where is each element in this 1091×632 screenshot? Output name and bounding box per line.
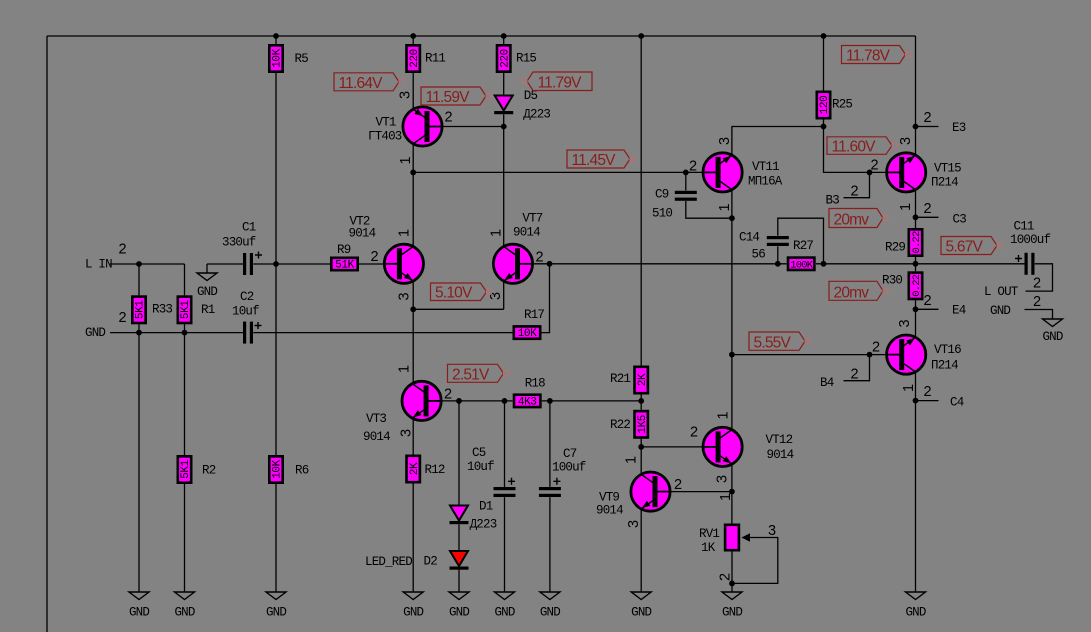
svg-text:ГТ403: ГТ403	[368, 130, 402, 144]
wire VT9 emitter to ground	[640, 509, 642, 592]
ground	[197, 273, 217, 299]
wire C9 top	[685, 172, 687, 190]
svg-text:GND: GND	[403, 606, 423, 620]
svg-text:3: 3	[897, 320, 913, 328]
svg-text:1: 1	[397, 365, 413, 373]
wire D5 to VT7 collector	[503, 114, 505, 246]
resistor R11 220	[407, 45, 446, 71]
resistor R18 4K3	[514, 377, 545, 409]
svg-text:П214: П214	[931, 176, 958, 190]
svg-text:330uf: 330uf	[222, 236, 256, 250]
svg-text:4K3: 4K3	[518, 397, 537, 409]
wire output GND stub	[1025, 310, 1053, 320]
wire	[275, 73, 277, 455]
svg-text:C4: C4	[950, 396, 964, 410]
transistor VT7 9014	[493, 244, 532, 283]
svg-text:R15: R15	[516, 52, 536, 66]
svg-text:2: 2	[1033, 294, 1041, 310]
wire VT2 collector	[412, 172, 414, 246]
wire C14 top return	[778, 218, 824, 264]
wire	[275, 484, 277, 592]
transistor VT11 МП16А	[703, 153, 742, 192]
svg-text:1: 1	[489, 229, 505, 237]
junction GND rail / R1-R2	[182, 330, 188, 336]
svg-text:1: 1	[716, 412, 732, 420]
wire	[915, 257, 917, 271]
wire output rail left	[550, 263, 787, 265]
svg-text:2: 2	[924, 110, 932, 126]
svg-text:1: 1	[718, 493, 734, 501]
svg-text:0.22: 0.22	[911, 274, 923, 297]
wire C14 bottom	[777, 246, 779, 263]
wire to VT3 collector	[412, 309, 414, 383]
wire C9 bottom to VT11 emitter	[686, 201, 732, 218]
svg-text:RV1: RV1	[699, 527, 719, 541]
voltage label 5.10V	[431, 283, 492, 302]
svg-text:11.79V: 11.79V	[538, 75, 583, 92]
wire rail to R21	[640, 36, 642, 366]
svg-text:2: 2	[924, 201, 932, 217]
svg-text:C11: C11	[1014, 220, 1034, 234]
ground	[494, 592, 514, 620]
resistor R5 10K	[269, 45, 308, 71]
svg-text:Д223: Д223	[523, 108, 550, 122]
wire GND rail to R17	[253, 332, 512, 334]
wire VT7 base	[533, 263, 550, 265]
wire VT11 collector to R25	[732, 127, 824, 156]
svg-text:2: 2	[689, 159, 697, 175]
wire VT7 emitter	[503, 281, 505, 309]
svg-text:GND: GND	[1042, 330, 1062, 344]
wire output rail right	[816, 263, 1025, 265]
resistor R27 100K	[788, 239, 814, 271]
svg-text:2: 2	[851, 184, 859, 200]
wire 5.55V node to VT16 base	[732, 354, 887, 356]
svg-text:GND: GND	[174, 606, 194, 620]
svg-text:R2: R2	[202, 464, 216, 478]
svg-text:9014: 9014	[596, 503, 623, 517]
junction VT9 base / VT12 emitter / RV1	[729, 489, 735, 495]
voltage label 2.51V	[448, 364, 509, 383]
transistor VT12 9014	[703, 427, 742, 466]
svg-text:2: 2	[445, 110, 453, 126]
voltage label 11.78V	[842, 46, 911, 65]
svg-text:R1: R1	[201, 303, 215, 317]
svg-text:C14: C14	[739, 231, 759, 245]
svg-text:VT11: VT11	[752, 160, 779, 174]
svg-text:9014: 9014	[349, 227, 376, 241]
svg-text:11.64V: 11.64V	[339, 75, 384, 92]
svg-text:E3: E3	[952, 121, 966, 135]
wire GND input rail	[110, 332, 243, 334]
svg-text:1: 1	[624, 456, 640, 464]
svg-text:GND: GND	[494, 606, 514, 620]
svg-text:C1: C1	[242, 221, 256, 235]
junction VT1 emitter / VT2 collector	[410, 170, 416, 176]
wire RV1 to ground	[731, 552, 733, 593]
wire VT15 emitter	[915, 190, 917, 228]
capacitor C5 10uf	[467, 446, 516, 497]
svg-text:2: 2	[444, 387, 452, 403]
wire C7 to ground	[549, 497, 551, 592]
svg-text:GND: GND	[540, 606, 560, 620]
capacitor C14 56	[739, 231, 789, 262]
svg-text:5.10V: 5.10V	[435, 285, 473, 302]
resistor R15 220	[497, 45, 536, 71]
svg-text:R18: R18	[525, 377, 545, 391]
svg-text:R25: R25	[832, 98, 852, 112]
wire	[823, 120, 825, 127]
junction L IN / R33	[136, 261, 142, 267]
svg-text:10K: 10K	[272, 48, 284, 67]
wire R12 to ground	[412, 484, 414, 593]
diode D5 Д223	[494, 96, 513, 115]
wire driver node to VT11 base	[413, 171, 703, 173]
ground	[266, 592, 286, 620]
svg-text:GND: GND	[905, 606, 925, 620]
svg-text:1: 1	[898, 203, 914, 211]
junction D5 / VT1 base / VT7 collector	[501, 124, 507, 130]
svg-text:2: 2	[718, 573, 734, 581]
wire	[184, 324, 186, 455]
svg-text:2: 2	[871, 158, 879, 174]
junction E4	[913, 306, 919, 312]
svg-text:R27: R27	[793, 239, 813, 253]
svg-text:1K: 1K	[701, 541, 716, 555]
svg-text:10K: 10K	[518, 328, 537, 340]
svg-text:2: 2	[1033, 276, 1041, 292]
svg-text:3: 3	[397, 293, 413, 301]
svg-text:1: 1	[397, 229, 413, 237]
diode D2 LED_RED	[450, 551, 469, 570]
resistor R2 5K1	[178, 456, 216, 482]
svg-text:1000uf: 1000uf	[1010, 233, 1051, 247]
svg-text:VT12: VT12	[766, 433, 793, 447]
junction top rail / R21 column	[638, 33, 644, 39]
wire L IN	[110, 263, 185, 265]
resistor R25 120	[817, 92, 853, 118]
svg-text:11.78V: 11.78V	[846, 48, 891, 65]
svg-text:D1: D1	[479, 500, 493, 514]
svg-text:R17: R17	[524, 308, 544, 322]
svg-text:C2: C2	[240, 290, 254, 304]
svg-text:L OUT: L OUT	[984, 285, 1019, 299]
resistor R33 5K1	[132, 297, 172, 323]
svg-text:2: 2	[371, 249, 379, 265]
junction C5	[502, 398, 508, 404]
voltage label 11.64V	[334, 73, 404, 92]
wire V+ top rail	[47, 35, 916, 37]
svg-text:GND: GND	[197, 285, 217, 299]
wire C5 to ground	[504, 497, 506, 592]
wire VT3 base	[441, 400, 459, 402]
wire B3 stub	[844, 172, 870, 197]
svg-text:2: 2	[872, 340, 880, 356]
svg-text:100K: 100K	[790, 259, 814, 271]
resistor R29 0.22	[885, 229, 923, 255]
svg-text:100uf: 100uf	[552, 461, 586, 475]
transistor VT3 9014	[402, 381, 441, 420]
svg-text:0.22: 0.22	[911, 231, 923, 254]
transistor VT15 П214	[887, 153, 926, 192]
svg-text:3: 3	[898, 137, 914, 145]
wire to C5	[504, 401, 506, 487]
svg-text:10uf: 10uf	[232, 305, 259, 319]
wire VT1 emitter	[412, 144, 414, 173]
junction R22 / VT12 base / VT9 collector	[638, 444, 644, 450]
svg-text:5K1: 5K1	[180, 300, 192, 319]
svg-text:9014: 9014	[363, 430, 390, 444]
svg-text:2: 2	[924, 384, 932, 400]
ground	[722, 592, 742, 620]
wire V+ left rail	[46, 36, 48, 632]
wire	[184, 484, 186, 592]
svg-text:2: 2	[119, 310, 127, 326]
wire	[275, 36, 277, 44]
wire VT2 emitter	[412, 281, 414, 309]
svg-text:R9: R9	[337, 243, 351, 257]
wire R30 to VT16	[915, 300, 917, 337]
svg-text:E4: E4	[952, 304, 966, 318]
wire R9 to VT2 base	[359, 263, 384, 265]
wire R22 to VT9 collector	[640, 439, 642, 475]
wire rail to R25	[823, 36, 825, 91]
svg-text:3: 3	[715, 475, 731, 483]
voltage label 11.79V	[522, 72, 592, 92]
wire C1 to R9	[253, 263, 330, 265]
svg-text:R22: R22	[610, 418, 630, 432]
junction C14 bottom / R27	[775, 261, 781, 267]
junction R25 / VT11 collector / VT15 base	[821, 124, 827, 130]
wire to C1	[207, 263, 243, 265]
wire	[503, 36, 505, 44]
wire R15 to D5	[503, 73, 505, 96]
svg-text:GND: GND	[129, 606, 149, 620]
junction B3 stub	[867, 170, 873, 176]
junction top rail / R25	[821, 33, 827, 39]
capacitor C7 100uf	[539, 447, 586, 497]
svg-text:R30: R30	[882, 274, 902, 288]
svg-text:B4: B4	[820, 376, 834, 390]
wire	[138, 324, 140, 592]
svg-text:5K1: 5K1	[135, 300, 147, 319]
wire D2 to ground	[458, 570, 460, 592]
svg-text:9014: 9014	[513, 226, 540, 240]
transistor VT1 ГТ403	[403, 107, 442, 146]
svg-text:VT16: VT16	[934, 343, 961, 357]
junction C9 / VT11 emitter	[729, 215, 735, 221]
resistor R21 2K	[610, 367, 649, 393]
svg-text:2: 2	[851, 367, 859, 383]
svg-text:220: 220	[499, 49, 511, 68]
wire VT3 base to D1	[458, 401, 460, 506]
svg-text:3: 3	[768, 523, 776, 539]
ground	[540, 592, 560, 620]
svg-text:56: 56	[752, 248, 766, 262]
wire	[184, 264, 186, 295]
svg-text:2.51V: 2.51V	[452, 366, 490, 383]
junction C1 / R5-R6 column	[273, 261, 279, 267]
svg-text:R12: R12	[425, 463, 445, 477]
svg-text:11.59V: 11.59V	[426, 89, 471, 106]
svg-text:10uf: 10uf	[467, 460, 494, 474]
junction output rail / R29-R30	[913, 261, 919, 267]
svg-text:GND: GND	[85, 326, 105, 340]
wire emitters join	[413, 308, 504, 310]
svg-text:П214: П214	[931, 359, 958, 373]
wire VT15 collector to rail	[915, 36, 917, 155]
junction RV1 wiper / bottom	[729, 581, 735, 587]
wire R11 to VT1	[412, 73, 414, 109]
wire VT12 emitter to RV1	[731, 464, 733, 523]
svg-text:9014: 9014	[767, 448, 794, 462]
junction R18 rail / R21-R22	[638, 398, 644, 404]
resistor R17 10K	[514, 308, 545, 340]
voltage label 11.60V	[827, 137, 897, 156]
voltage label 20mv upper	[829, 209, 888, 229]
wire B4 stub	[844, 355, 870, 381]
wire D1 to D2	[458, 524, 460, 551]
svg-text:51K: 51K	[335, 260, 354, 272]
wire C4 stub	[916, 400, 939, 402]
svg-text:1: 1	[398, 157, 414, 165]
transistor VT16 П214	[887, 335, 926, 374]
ground	[129, 592, 149, 620]
junction VT3 base / D1	[456, 398, 462, 404]
junction C9 / VT11 base wire	[683, 170, 689, 176]
svg-text:VT15: VT15	[934, 162, 961, 176]
wire E4 stub	[916, 308, 939, 310]
wire VT9 base to VT12 emitter	[670, 491, 732, 493]
svg-text:R21: R21	[610, 372, 630, 386]
svg-text:GND: GND	[631, 606, 651, 620]
wire E3 stub	[916, 126, 939, 128]
wire C3 stub	[916, 216, 939, 218]
wire RV1 wiper return	[732, 538, 778, 584]
wire R25 to VT15 base	[824, 127, 887, 173]
voltage label 11.45V	[567, 150, 635, 169]
svg-text:11.45V: 11.45V	[572, 152, 617, 169]
svg-text:GND: GND	[722, 606, 742, 620]
wire	[412, 36, 414, 44]
resistor R6 10K	[269, 456, 308, 482]
diode D1 Д223	[450, 506, 469, 525]
svg-text:3: 3	[398, 91, 414, 99]
voltage label 20mv lower	[829, 281, 888, 301]
ground	[1042, 319, 1062, 344]
junction top rail / R11	[410, 33, 416, 39]
svg-text:GND: GND	[449, 606, 469, 620]
svg-text:2: 2	[119, 242, 127, 258]
ground	[449, 592, 469, 620]
svg-text:МП16А: МП16А	[748, 175, 783, 189]
junction VT11 emitter / 5.55V node	[729, 352, 735, 358]
svg-text:R6: R6	[295, 464, 309, 478]
capacitor C2 10uf	[232, 290, 262, 344]
junction C7	[547, 398, 553, 404]
svg-text:5.55V: 5.55V	[754, 334, 792, 351]
wire VT3 base rail	[459, 400, 513, 402]
ground	[905, 592, 925, 620]
svg-text:1K5: 1K5	[637, 415, 649, 434]
svg-text:C3: C3	[953, 213, 967, 227]
junction C3	[913, 214, 919, 220]
ground	[631, 592, 651, 620]
svg-text:2: 2	[690, 425, 698, 441]
svg-text:VT3: VT3	[366, 412, 386, 426]
voltage label 5.67V	[941, 237, 1002, 256]
voltage label 11.59V	[421, 87, 491, 106]
transistor VT2 9014	[384, 244, 423, 283]
svg-text:C5: C5	[472, 446, 486, 460]
junction R27 / C14 top return	[821, 261, 827, 267]
svg-text:LED_RED: LED_RED	[365, 555, 412, 569]
resistor R12 2K	[407, 456, 445, 482]
wire to C7	[549, 401, 551, 487]
junction C4	[913, 398, 919, 404]
svg-text:R29: R29	[885, 241, 905, 255]
junction VT2/VT7 emitters	[410, 306, 416, 312]
svg-text:B3: B3	[826, 193, 840, 207]
svg-text:220: 220	[409, 49, 421, 68]
svg-text:L IN: L IN	[85, 258, 112, 272]
svg-text:1: 1	[901, 384, 917, 392]
junction E3	[913, 124, 919, 130]
svg-text:5.67V: 5.67V	[946, 239, 984, 256]
wire	[640, 395, 642, 410]
svg-text:3: 3	[488, 292, 504, 300]
wire C1 ground stub	[206, 264, 208, 273]
resistor R9 51K	[331, 243, 357, 272]
svg-text:2: 2	[924, 293, 932, 309]
svg-text:11.60V: 11.60V	[832, 138, 877, 155]
svg-text:10K: 10K	[272, 459, 284, 478]
svg-text:2K: 2K	[637, 373, 649, 386]
svg-text:D2: D2	[424, 555, 438, 569]
wire VT11 emitter column	[731, 190, 733, 430]
svg-text:2: 2	[536, 250, 544, 266]
svg-text:Д223: Д223	[470, 518, 497, 532]
svg-text:GND: GND	[990, 304, 1010, 318]
svg-text:C7: C7	[563, 447, 577, 461]
wire C11 to L OUT	[1026, 264, 1053, 291]
transistor VT9 9014	[631, 472, 670, 511]
svg-text:20mv: 20mv	[834, 284, 870, 301]
wire VT16 emitter to ground	[915, 372, 917, 592]
svg-text:1: 1	[717, 204, 733, 212]
junction top rail / R15	[501, 33, 507, 39]
junction B4 stub	[867, 352, 873, 358]
resistor R1 5K1	[178, 297, 215, 323]
svg-text:VT7: VT7	[522, 212, 542, 226]
wire R17 to VT7 base	[542, 264, 550, 333]
resistor R30 0.22	[882, 273, 923, 299]
capacitor C9 510	[652, 188, 697, 221]
junction top rail / R5	[273, 33, 279, 39]
svg-text:510: 510	[652, 207, 672, 221]
wire	[138, 264, 140, 295]
ground	[174, 592, 194, 620]
voltage label 5.55V	[749, 332, 810, 351]
svg-text:R5: R5	[295, 52, 309, 66]
wire VT3 emitter to R12	[412, 418, 414, 454]
svg-text:3: 3	[399, 429, 415, 437]
wire VT1 base to D5	[442, 126, 503, 128]
svg-text:120: 120	[819, 96, 831, 115]
svg-text:VT1: VT1	[376, 116, 396, 130]
capacitor C1 330uf	[222, 221, 262, 276]
junction VT7 base / R17 / output rail	[547, 261, 553, 267]
